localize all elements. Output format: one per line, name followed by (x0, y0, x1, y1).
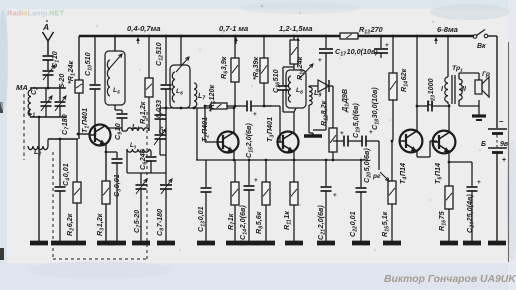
dashed MA pointer (23, 94, 25, 160)
resistor R5 120k horizontal (211, 103, 227, 109)
wire L5 to rail (114, 36, 116, 51)
ground R16 (440, 241, 458, 246)
svg-text:Вк: Вк (477, 43, 486, 50)
battery to ground wire (496, 153, 498, 242)
ground battery (488, 241, 506, 246)
T4 collector wire (416, 37, 418, 132)
T3 collector wire (293, 112, 295, 133)
diode D1 D9B (318, 80, 329, 92)
resistor R4 1,2k (148, 36, 150, 78)
T2 emitter wire (233, 151, 235, 160)
mid bus wire (166, 107, 234, 109)
svg-text:0,7-1 ма: 0,7-1 ма (219, 24, 248, 33)
svg-text:+: + (318, 57, 322, 64)
measure arrow 4 (435, 38, 437, 45)
svg-text:+: + (254, 177, 258, 184)
transistor T2 P401 (218, 132, 239, 153)
svg-text:+: + (253, 111, 257, 118)
svg-text:0,4-0,7ма: 0,4-0,7ма (127, 24, 160, 33)
capacitor C23 1000 (417, 105, 428, 107)
battery B 9v (496, 124, 498, 128)
wire L9 to mid ground (308, 105, 310, 133)
ground C24 (463, 241, 481, 246)
ground C22 (352, 241, 370, 246)
T4 emitter to T5 base (416, 150, 418, 157)
T5 emitter wire (448, 150, 450, 186)
resistor R6 3,9k (234, 36, 236, 58)
svg-text:5-20: 5-20 (57, 74, 66, 88)
transformer core (451, 75, 453, 104)
wire L2 to base column (47, 139, 49, 146)
capacitor C14 2,0(6v) (248, 160, 250, 185)
resistor R9 39k (263, 36, 265, 58)
base riser T3 (279, 106, 281, 142)
scan speckles (59, 5, 481, 251)
capacitor C6 240 (149, 149, 151, 151)
measure arrow 2 (235, 38, 237, 45)
gang varcap C5 5-20 (140, 173, 142, 184)
T3 emitter wire (293, 151, 295, 242)
capacitor C21 2,0(6v) (325, 160, 327, 186)
ground C3 (108, 241, 126, 246)
wire L7 to bus (196, 108, 198, 160)
capacitor C10 510 (94, 36, 96, 84)
svg-text:рг: рг (372, 173, 381, 180)
resistor R7 1k (234, 160, 236, 182)
capacitor C1 10 (43, 55, 54, 57)
capacitor C16 510 (283, 66, 294, 68)
capacitor C13 0,01 (205, 160, 207, 187)
trimmer arrow L8 (300, 64, 313, 78)
capacitor C19 coupling (337, 140, 344, 142)
svg-text:Виктор Гончаров UA9UKI: Виктор Гончаров UA9UKI (384, 274, 516, 285)
winding II (459, 79, 462, 100)
svg-text:L3: L3 (130, 143, 137, 150)
tank3 bottom wire (127, 172, 166, 174)
svg-text:RadioLamp.NET: RadioLamp.NET (7, 9, 65, 18)
resistor R11 1k (290, 182, 298, 205)
potentiometer R15 5,1k (391, 141, 393, 181)
ground R15 (383, 241, 401, 246)
ground C4 (51, 241, 69, 246)
capacitor C9 10 (114, 105, 116, 110)
capacitor C17 10,0(10v) (325, 36, 327, 48)
resistor R16 75 (445, 186, 453, 209)
resistor R8 5,6k (265, 160, 267, 182)
svg-text:6-8ма: 6-8ма (437, 25, 458, 34)
svg-text:А: А (42, 22, 49, 32)
wire switch to battery (488, 35, 498, 37)
variable cap C7 tank b (59, 88, 61, 101)
base riser T2 (204, 106, 206, 142)
resistor R12 8,2k (329, 128, 337, 152)
coil L4 horizontal (127, 128, 149, 131)
top supply rail (79, 35, 474, 37)
wire R5-R6 junction (227, 105, 240, 107)
measure arrow 1 (137, 38, 139, 45)
measure arrow 3 (297, 38, 299, 45)
gang varcap C8 7-180 (160, 184, 172, 186)
dashed gang coupling (146, 112, 148, 259)
resistor R2 6,2k (76, 139, 78, 182)
wire tank to ground (38, 117, 40, 242)
ground gang1 (132, 241, 150, 246)
ground R3 (97, 241, 115, 246)
svg-text:+: + (385, 42, 389, 49)
transistor T1 P401 (90, 125, 111, 146)
ground R8 (257, 241, 275, 246)
transistor T3 P401 (278, 132, 299, 153)
feedback bus wire (196, 159, 368, 161)
capacitor C22 0,01 (360, 160, 362, 187)
svg-text:+: + (477, 179, 481, 186)
svg-text:9в: 9в (500, 141, 509, 148)
coil L1 (28, 90, 31, 116)
ground C14 (240, 241, 258, 246)
T2 collector wire (233, 108, 235, 133)
ground R7 (226, 241, 244, 246)
svg-text:+: + (502, 157, 506, 164)
variable capacitor C2 5-20 (43, 70, 54, 72)
capacitor C24 25,0(4v) (449, 161, 472, 163)
capacitor C18 30,0(10v) (380, 36, 382, 48)
svg-text:–: – (499, 117, 504, 126)
ground speaker (472, 114, 486, 117)
coil L7 (194, 83, 197, 107)
emitter wire T1 (105, 144, 107, 181)
ground C13 (197, 241, 215, 246)
trimmer cap Sp (155, 134, 166, 136)
wire II to speaker (458, 73, 460, 79)
trimmer arrow L5 (108, 54, 122, 70)
svg-text:0,033: 0,033 (154, 100, 163, 118)
resistor R1 24k (78, 36, 80, 80)
detector drop wire (332, 86, 334, 128)
ground C21 (317, 241, 335, 246)
capacitor C4 0,01 (59, 139, 61, 186)
wire bus to gang (165, 108, 167, 184)
resistor R3 1,2k (102, 181, 110, 204)
node antenna-tank (47, 87, 50, 90)
mid ground bar (304, 134, 322, 137)
speaker Gr (475, 80, 482, 94)
resistor R13 270 in rail (340, 33, 358, 39)
scan artifact left edge (0, 102, 3, 113)
coil L2 (28, 146, 48, 150)
capacitor C11 0,033 (159, 108, 161, 114)
scan smudges (430, 4, 510, 20)
ground R2 (68, 241, 86, 246)
capacitor C20 5,0(6v) series (361, 136, 363, 147)
resistor R14 62k (392, 36, 394, 73)
tank bottom wire (30, 116, 66, 118)
switch Vk (473, 35, 477, 39)
coil L9 (309, 87, 312, 105)
transistor T5 P14 (433, 131, 456, 154)
coil box L6 (170, 65, 190, 108)
capacitor C12 510 (165, 36, 167, 84)
page edge line (508, 42, 510, 262)
svg-text:+: + (340, 130, 344, 137)
capacitor C15 2,0(6v) (240, 105, 247, 107)
capacitor C3 0,01 emitter bypass (106, 151, 117, 153)
coil box L5 (105, 51, 125, 105)
tank top wire (30, 87, 66, 89)
variable cap C tank a (30, 88, 32, 90)
coil box L8 (286, 70, 306, 108)
ground tank (30, 241, 48, 246)
svg-text:Гр: Гр (482, 71, 490, 78)
svg-text:Б: Б (481, 141, 486, 148)
coil L3 horizontal (127, 149, 149, 152)
dashed box bottom (53, 258, 147, 260)
svg-text:+: + (333, 192, 337, 199)
wire base column (78, 93, 80, 139)
svg-text:1,2-1,5ма: 1,2-1,5ма (279, 24, 312, 33)
ground T3 emitter (285, 241, 303, 246)
ground gang2 (157, 241, 175, 246)
trimmer arrow L6 (176, 57, 189, 72)
resistor R10 24k (293, 36, 295, 40)
transformer Tr1 (447, 36, 449, 77)
wire to volume wiper (378, 141, 380, 170)
svg-text:МА: МА (16, 83, 28, 92)
transistor T4 P14 (400, 130, 423, 153)
